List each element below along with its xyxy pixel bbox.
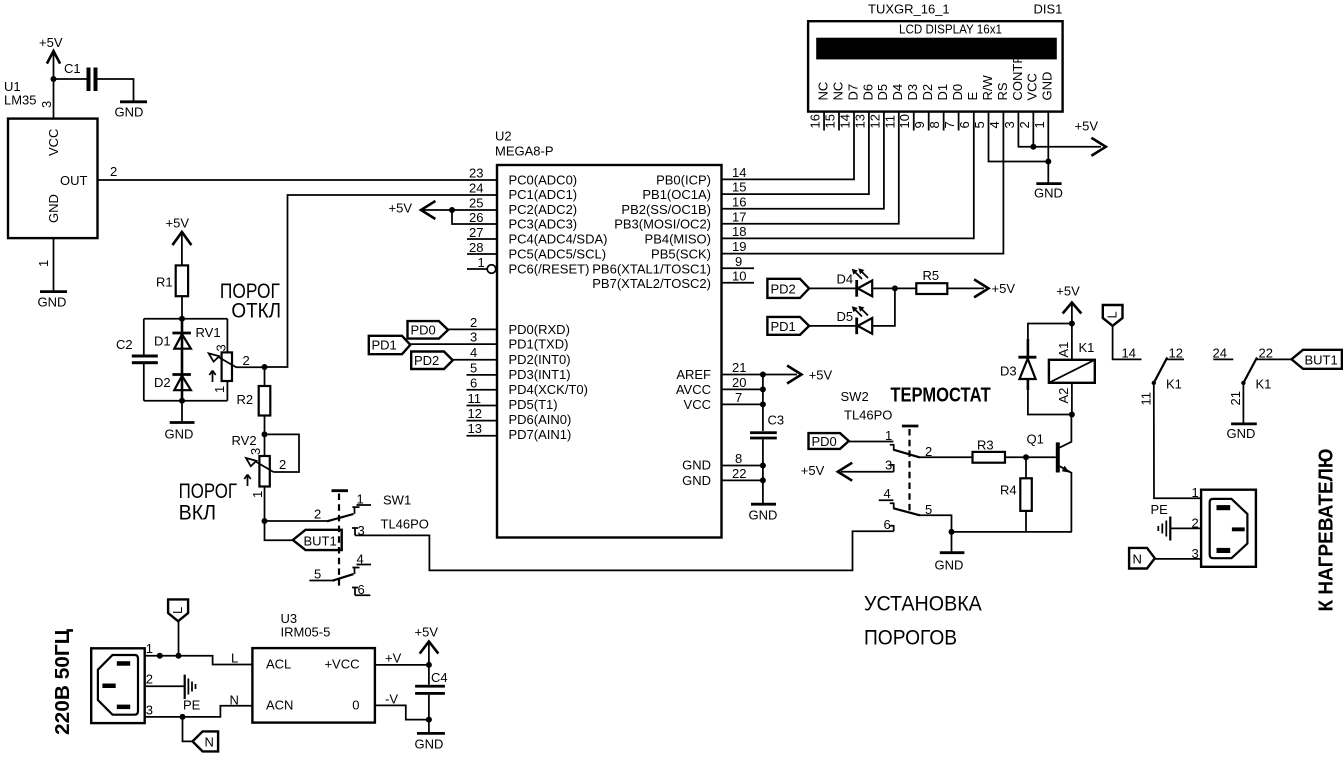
- svg-text:9: 9: [735, 254, 742, 269]
- svg-text:PB0(ICP): PB0(ICP): [656, 173, 711, 188]
- power flag +5V (AREF): [788, 366, 832, 383]
- wire DIS1 pin15 stub: [838, 112, 840, 131]
- relay contact K1 (second): [1241, 358, 1291, 392]
- wire U2 pin5 stub: [467, 374, 498, 376]
- svg-text:ПОРОГ: ПОРОГ: [179, 480, 237, 503]
- svg-text:PB1(OC1A): PB1(OC1A): [642, 187, 711, 202]
- svg-text:PC4(ADC4/SDA): PC4(ADC4/SDA): [509, 232, 608, 247]
- ground (LCD): [1034, 184, 1063, 201]
- wire U1 pin3: [53, 79, 55, 119]
- svg-text:R3: R3: [977, 438, 994, 453]
- svg-text:N: N: [205, 735, 214, 750]
- wire C1 right to ground: [98, 79, 134, 101]
- svg-text:A2: A2: [1056, 388, 1071, 404]
- node VCC junction: [760, 401, 766, 407]
- power flag +5V (LCD): [1075, 119, 1106, 156]
- svg-text:U2: U2: [495, 129, 512, 144]
- resistor R2: [237, 367, 271, 434]
- svg-text:-V: -V: [385, 692, 398, 707]
- wire U2 pin1 stub with inversion circle: [467, 265, 496, 274]
- node pin25 junction: [449, 207, 455, 213]
- svg-text:LCD DISPLAY 16x1: LCD DISPLAY 16x1: [899, 22, 1002, 37]
- resistor R5: [916, 268, 947, 294]
- wire K1 pin11 to heater pin1: [1154, 383, 1201, 498]
- svg-text:PB2(SS/OC1B): PB2(SS/OC1B): [621, 202, 711, 217]
- svg-text:+VCC: +VCC: [324, 657, 359, 672]
- SW1 pin 3 contact: [352, 523, 365, 538]
- connector X2 heater outlet: [1201, 490, 1256, 567]
- svg-text:ACL: ACL: [266, 657, 291, 672]
- connector X1 mains inlet: [91, 648, 145, 723]
- node relay/Q1 junction: [1069, 412, 1075, 418]
- svg-text:27: 27: [469, 225, 483, 240]
- svg-text:K1: K1: [1079, 340, 1095, 355]
- svg-text:RV2: RV2: [232, 433, 257, 448]
- svg-text:11: 11: [468, 391, 482, 406]
- svg-text:УСТАНОВКА: УСТАНОВКА: [864, 592, 982, 615]
- svg-text:3: 3: [1002, 121, 1017, 128]
- net flag PD2 (U2): [411, 352, 453, 370]
- node R2/RV2 junction: [262, 431, 268, 437]
- node C4 top junction: [426, 662, 432, 668]
- svg-text:PC6(/RESET): PC6(/RESET): [509, 262, 590, 277]
- svg-text:+5V: +5V: [389, 201, 413, 216]
- svg-text:C2: C2: [116, 337, 133, 352]
- transistor Q1: [1027, 415, 1072, 532]
- power flag +5V (relay): [1056, 284, 1080, 324]
- svg-text:E: E: [965, 92, 980, 101]
- svg-text:2: 2: [314, 507, 321, 522]
- svg-text:IRM05-5: IRM05-5: [281, 625, 331, 640]
- svg-text:1: 1: [885, 428, 892, 443]
- net flag L (relay contact): [1103, 305, 1123, 326]
- wire U2 pin3: [410, 343, 497, 345]
- svg-text:14: 14: [732, 165, 746, 180]
- svg-text:PB4(MISO): PB4(MISO): [645, 232, 711, 247]
- svg-text:5: 5: [470, 361, 477, 376]
- wire DIS1 pin3 CONTR to +5V: [1018, 112, 1033, 147]
- svg-text:24: 24: [1213, 346, 1227, 361]
- svg-text:3: 3: [39, 101, 54, 108]
- label POROG VKL: [179, 480, 237, 525]
- wire SW2 pin5: [920, 515, 952, 532]
- svg-text:PB5(SCK): PB5(SCK): [651, 247, 711, 262]
- wire U1 OUT to U2 pin23: [98, 179, 498, 181]
- power flag +5V (R1 supply): [166, 216, 191, 266]
- svg-text:C1: C1: [64, 61, 81, 76]
- svg-text:MEGA8-P: MEGA8-P: [495, 144, 554, 159]
- svg-text:1: 1: [1192, 485, 1199, 500]
- svg-text:4: 4: [884, 486, 891, 501]
- wire U2 pin25 +5V: [421, 209, 497, 211]
- wire U2 GND pin8: [722, 465, 763, 467]
- svg-text:BUT1: BUT1: [1305, 353, 1338, 368]
- wire DIS1 pin9 stub: [928, 112, 930, 131]
- svg-text:PB6(XTAL1/TOSC1): PB6(XTAL1/TOSC1): [592, 262, 711, 277]
- wire DIS1 pin10 stub: [913, 112, 915, 131]
- svg-text:NC: NC: [815, 82, 830, 101]
- wire mains pin3 N: [145, 706, 253, 717]
- svg-text:A1: A1: [1056, 342, 1071, 358]
- net flag BUT1 (K1): [1292, 350, 1342, 369]
- SW1 actuator dashed link: [332, 491, 349, 588]
- svg-text:12: 12: [1169, 346, 1183, 361]
- wire SW1 pin3 to SW2 pin6: [355, 531, 894, 570]
- SW2 pin 4 contact: [879, 486, 895, 509]
- svg-text:6: 6: [470, 376, 477, 391]
- wire U2 pin18 to LCD E: [722, 112, 974, 239]
- svg-text:R1: R1: [156, 275, 173, 290]
- node mains pin1 dot: [157, 653, 163, 659]
- svg-text:R5: R5: [923, 268, 940, 283]
- label USTANOVKA POROGOV: [864, 592, 982, 649]
- svg-text:C3: C3: [768, 413, 785, 428]
- svg-text:NC: NC: [830, 82, 845, 101]
- wire SW2 to Q1 emitter: [952, 531, 1072, 533]
- capacitor C1: [64, 61, 98, 91]
- svg-text:CONTR: CONTR: [1010, 54, 1025, 100]
- net flag L (mains): [168, 599, 188, 621]
- svg-text:L: L: [170, 607, 185, 614]
- svg-text:PD1: PD1: [372, 338, 397, 353]
- wire SW2 pin2 to R3: [920, 456, 973, 458]
- net flag PD1 (U2): [369, 336, 411, 354]
- node divider top junction: [179, 316, 185, 322]
- wire R1 bottom: [181, 296, 183, 319]
- svg-text:LM35: LM35: [4, 93, 37, 108]
- svg-text:PC0(ADC0): PC0(ADC0): [509, 173, 578, 188]
- wire U1 pin1 to ground: [53, 238, 55, 290]
- wire U2 pin19 to LCD RS: [722, 112, 1004, 254]
- SW1 pin 6 contact: [352, 582, 370, 597]
- svg-text:2: 2: [1192, 516, 1199, 531]
- svg-text:PD0(RXD): PD0(RXD): [509, 322, 570, 337]
- svg-text:9: 9: [912, 121, 927, 128]
- svg-text:7: 7: [735, 390, 742, 405]
- svg-text:D2: D2: [154, 375, 171, 390]
- node GND8 junction: [760, 463, 766, 469]
- wire to ground (divider): [181, 401, 183, 423]
- wire RV2 wiper loop: [265, 434, 300, 472]
- wire pin25 to pin26: [452, 210, 497, 224]
- wire U2 pin10 stub: [722, 282, 755, 284]
- svg-text:16: 16: [732, 195, 746, 210]
- net flag PD0 (SW2): [809, 433, 849, 449]
- wire DIS1 pin5 R/W to gnd rail: [989, 112, 1049, 162]
- svg-text:L: L: [1105, 311, 1120, 318]
- svg-text:14: 14: [1122, 346, 1136, 361]
- earth symbol PE (heater): [1151, 502, 1202, 541]
- svg-text:PE: PE: [1151, 502, 1169, 517]
- svg-text:TUXGR_16_1: TUXGR_16_1: [868, 2, 950, 17]
- wire C3 bottom to ground: [762, 439, 764, 504]
- wire SW1 pin5: [309, 580, 332, 582]
- svg-text:PD1(TXD): PD1(TXD): [509, 337, 569, 352]
- svg-text:D5: D5: [875, 84, 890, 101]
- svg-text:2: 2: [243, 353, 250, 368]
- svg-text:15: 15: [823, 114, 838, 128]
- wire mains pin1 L: [145, 656, 253, 665]
- svg-text:ПОРОГОВ: ПОРОГОВ: [864, 627, 957, 650]
- svg-text:7: 7: [942, 121, 957, 128]
- wire U2 pin11 stub: [467, 405, 498, 407]
- svg-text:25: 25: [469, 196, 483, 211]
- svg-text:2: 2: [470, 315, 477, 330]
- svg-text:PC1(ADC1): PC1(ADC1): [509, 187, 578, 202]
- svg-text:D4: D4: [837, 272, 854, 287]
- svg-text:+5V: +5V: [166, 216, 190, 231]
- SW2 actuator dashed link: [902, 426, 919, 512]
- svg-text:13: 13: [852, 114, 867, 128]
- wire U2 GND pin22: [722, 479, 763, 481]
- svg-text:PB3(MOSI/OC2): PB3(MOSI/OC2): [614, 217, 711, 232]
- svg-text:+V: +V: [385, 651, 402, 666]
- wire U2 pin17 to LCD D4: [722, 112, 899, 224]
- svg-text:23: 23: [469, 166, 483, 181]
- svg-text:220В 50ГЦ: 220В 50ГЦ: [52, 629, 74, 735]
- svg-text:3: 3: [146, 703, 153, 718]
- switch SW2 TL46PO thermostat: [841, 384, 991, 422]
- svg-text:PD2: PD2: [414, 353, 439, 368]
- wire U2 pin28 stub: [467, 253, 497, 255]
- svg-text:GND: GND: [749, 508, 778, 523]
- svg-text:K1: K1: [1256, 377, 1272, 392]
- svg-text:21: 21: [732, 360, 746, 375]
- svg-text:26: 26: [469, 210, 483, 225]
- svg-text:D6: D6: [860, 84, 875, 101]
- LED D4: [837, 268, 873, 297]
- svg-text:10: 10: [897, 114, 912, 128]
- svg-text:2: 2: [146, 672, 153, 687]
- wire PD2 to D4: [809, 287, 857, 289]
- svg-text:AREF: AREF: [676, 367, 711, 382]
- svg-text:3: 3: [248, 448, 263, 455]
- svg-text:22: 22: [1259, 346, 1273, 361]
- capacitor C2: [116, 337, 158, 364]
- svg-text:RV1: RV1: [196, 325, 221, 340]
- svg-text:20: 20: [732, 375, 746, 390]
- svg-text:D2: D2: [920, 84, 935, 101]
- svg-text:GND: GND: [1040, 72, 1055, 101]
- svg-text:SW1: SW1: [383, 493, 411, 508]
- wire +5V rail LCD: [1033, 146, 1101, 148]
- SW2 pin 1 contact: [885, 428, 895, 450]
- svg-text:L: L: [231, 651, 238, 666]
- svg-text:D5: D5: [837, 309, 854, 324]
- svg-text:+5V: +5V: [1075, 119, 1099, 134]
- svg-text:K1: K1: [1166, 377, 1182, 392]
- svg-text:GND: GND: [935, 558, 964, 573]
- svg-text:PC5(ADC5/SCL): PC5(ADC5/SCL): [509, 247, 607, 262]
- svg-text:+5V: +5V: [801, 463, 825, 478]
- node Q1 base junction: [1023, 454, 1029, 460]
- svg-text:3: 3: [214, 344, 229, 351]
- SW2 pin 6 contact: [884, 517, 895, 532]
- svg-text:1: 1: [250, 491, 265, 498]
- net flag PD1 (LED): [767, 317, 809, 335]
- svg-text:PD2(INT0): PD2(INT0): [509, 352, 571, 367]
- svg-text:+5V: +5V: [992, 281, 1016, 296]
- svg-text:GND: GND: [38, 295, 67, 310]
- node N junction: [180, 714, 186, 720]
- power flag +5V (U1 supply): [39, 35, 63, 79]
- svg-text:15: 15: [732, 180, 746, 195]
- wire divider frame top: [144, 318, 228, 320]
- wire diode chain: [181, 319, 184, 401]
- node C4 bottom junction: [426, 717, 432, 723]
- earth symbol PE (mains): [183, 675, 201, 713]
- svg-text:ОТКЛ: ОТКЛ: [231, 299, 281, 322]
- node VCC-U1 junction: [51, 76, 57, 82]
- svg-text:VCC: VCC: [684, 397, 711, 412]
- svg-text:+5V: +5V: [1056, 284, 1080, 299]
- diode D2: [154, 375, 191, 391]
- svg-text:GND: GND: [115, 105, 144, 120]
- svg-text:1: 1: [36, 260, 51, 267]
- ground (C1): [115, 102, 148, 120]
- svg-text:D1: D1: [154, 334, 171, 349]
- svg-text:D7: D7: [845, 84, 860, 101]
- svg-text:D4: D4: [890, 84, 905, 101]
- temperature sensor U1 LM35: [4, 79, 98, 238]
- LED D5: [837, 306, 873, 335]
- capacitor C4: [415, 665, 448, 720]
- svg-text:ТЕРМОСТАТ: ТЕРМОСТАТ: [890, 384, 990, 406]
- wire U2 pin12 stub: [467, 420, 498, 422]
- svg-text:GND: GND: [415, 737, 444, 752]
- svg-text:PD0: PD0: [812, 434, 837, 449]
- node OTKL junction: [262, 364, 268, 370]
- wire PD1 to D5: [809, 325, 857, 327]
- wire U2 AVCC pin20: [722, 388, 763, 390]
- svg-text:PB7(XTAL2/TOSC2): PB7(XTAL2/TOSC2): [592, 276, 711, 291]
- svg-text:ВКЛ: ВКЛ: [179, 502, 217, 525]
- label POROG OTKL: [220, 280, 281, 323]
- svg-text:12: 12: [468, 406, 482, 421]
- svg-text:1: 1: [212, 386, 227, 393]
- wire U2 pin13 stub: [467, 435, 498, 437]
- wire U2 pin27 stub: [467, 238, 497, 240]
- wire K1 pin21 to ground: [1242, 383, 1244, 424]
- wire DIS1 pin1 GND: [1047, 112, 1049, 184]
- svg-text:GND: GND: [682, 458, 711, 473]
- svg-text:К НАГРЕВАТЕЛЮ: К НАГРЕВАТЕЛЮ: [1316, 449, 1338, 612]
- node LCD GND junction: [1045, 159, 1051, 165]
- relay contact K1 (first): [1152, 358, 1184, 392]
- svg-text:BUT1: BUT1: [304, 534, 337, 549]
- svg-text:6: 6: [957, 121, 972, 128]
- power flag +5V (PC2/PC3): [389, 201, 435, 219]
- diode D3: [1000, 324, 1072, 415]
- wire U2 pin16 to LCD D5: [722, 112, 884, 209]
- svg-text:2: 2: [110, 164, 117, 179]
- net flag BUT1 (SW1): [293, 530, 342, 550]
- svg-text:GND: GND: [1034, 186, 1063, 201]
- svg-text:22: 22: [732, 466, 746, 481]
- wire mains pin2 to PE: [145, 685, 185, 687]
- svg-text:D3: D3: [1000, 364, 1017, 379]
- wire U2 pin6 stub: [467, 389, 498, 391]
- switch SW1 TL46PO: [381, 493, 429, 532]
- wire DIS1 pin8 stub: [943, 112, 945, 131]
- svg-text:VCC: VCC: [1025, 73, 1040, 100]
- svg-text:Q1: Q1: [1027, 432, 1044, 447]
- power flag +5V (U3): [415, 625, 439, 665]
- svg-text:21: 21: [1228, 391, 1243, 405]
- svg-text:GND: GND: [46, 194, 61, 223]
- node divider bottom junction: [179, 398, 185, 404]
- diode D1: [154, 333, 191, 349]
- potentiometer RV2: [232, 433, 287, 521]
- svg-text:1: 1: [146, 641, 153, 656]
- wire U2 VCC pin7: [722, 403, 763, 405]
- svg-text:RS: RS: [995, 82, 1010, 100]
- resistor R1: [156, 265, 188, 296]
- wire U3 0 out: [375, 705, 429, 719]
- wire R5 to +5V: [947, 287, 984, 289]
- svg-text:GND: GND: [165, 427, 194, 442]
- svg-text:18: 18: [732, 224, 746, 239]
- svg-text:6: 6: [884, 517, 891, 532]
- svg-text:PD6(AIN0): PD6(AIN0): [509, 412, 572, 427]
- svg-text:5: 5: [314, 567, 321, 582]
- svg-text:PC3(ADC3): PC3(ADC3): [509, 217, 578, 232]
- ground (C3/U2): [749, 504, 778, 522]
- node SW2 gnd junction: [949, 529, 955, 535]
- svg-text:PE: PE: [183, 698, 201, 713]
- svg-text:11: 11: [882, 115, 897, 129]
- svg-text:N: N: [230, 693, 239, 708]
- wire BUT1 stub: [265, 521, 293, 540]
- SW1 pin 4 contact: [352, 551, 371, 574]
- ground (SW2): [935, 532, 965, 573]
- resistor R4: [1000, 457, 1032, 532]
- SW1 blade 5-4: [333, 574, 354, 581]
- svg-text:11: 11: [1139, 392, 1154, 406]
- svg-text:24: 24: [469, 181, 483, 196]
- wire D4 to R5: [872, 287, 916, 289]
- node AVCC junction: [760, 386, 766, 392]
- svg-text:10: 10: [732, 269, 746, 284]
- ground (divider): [165, 423, 195, 442]
- SW1 pin 1 contact: [352, 492, 371, 514]
- svg-text:14: 14: [837, 114, 852, 128]
- net flag PD2 (LED): [767, 279, 809, 298]
- net flag N (heater): [1129, 548, 1155, 569]
- svg-text:D0: D0: [950, 84, 965, 101]
- svg-text:4: 4: [987, 121, 1002, 128]
- svg-text:PD0: PD0: [411, 323, 436, 338]
- svg-text:SW2: SW2: [841, 389, 869, 404]
- net flag PD0 (U2): [408, 321, 449, 339]
- wire U2 pin15 to LCD D6: [722, 112, 869, 195]
- wire L flag to K1 pin14: [1113, 326, 1142, 360]
- svg-text:TL46PO: TL46PO: [844, 408, 892, 423]
- svg-text:28: 28: [469, 240, 483, 255]
- node relay +5V junction: [1069, 321, 1075, 327]
- svg-text:PD7(AIN1): PD7(AIN1): [509, 427, 572, 442]
- svg-text:13: 13: [468, 421, 482, 436]
- svg-text:5: 5: [972, 121, 987, 128]
- svg-text:3: 3: [1192, 546, 1199, 561]
- node AREF junction: [760, 372, 766, 378]
- wire C1 left: [54, 78, 87, 80]
- wire U2 pin9 stub: [722, 267, 755, 269]
- svg-text:AVCC: AVCC: [676, 382, 711, 397]
- svg-text:2: 2: [279, 457, 286, 472]
- svg-text:N: N: [1133, 552, 1142, 567]
- wire DIS1 pin7 stub: [958, 112, 960, 131]
